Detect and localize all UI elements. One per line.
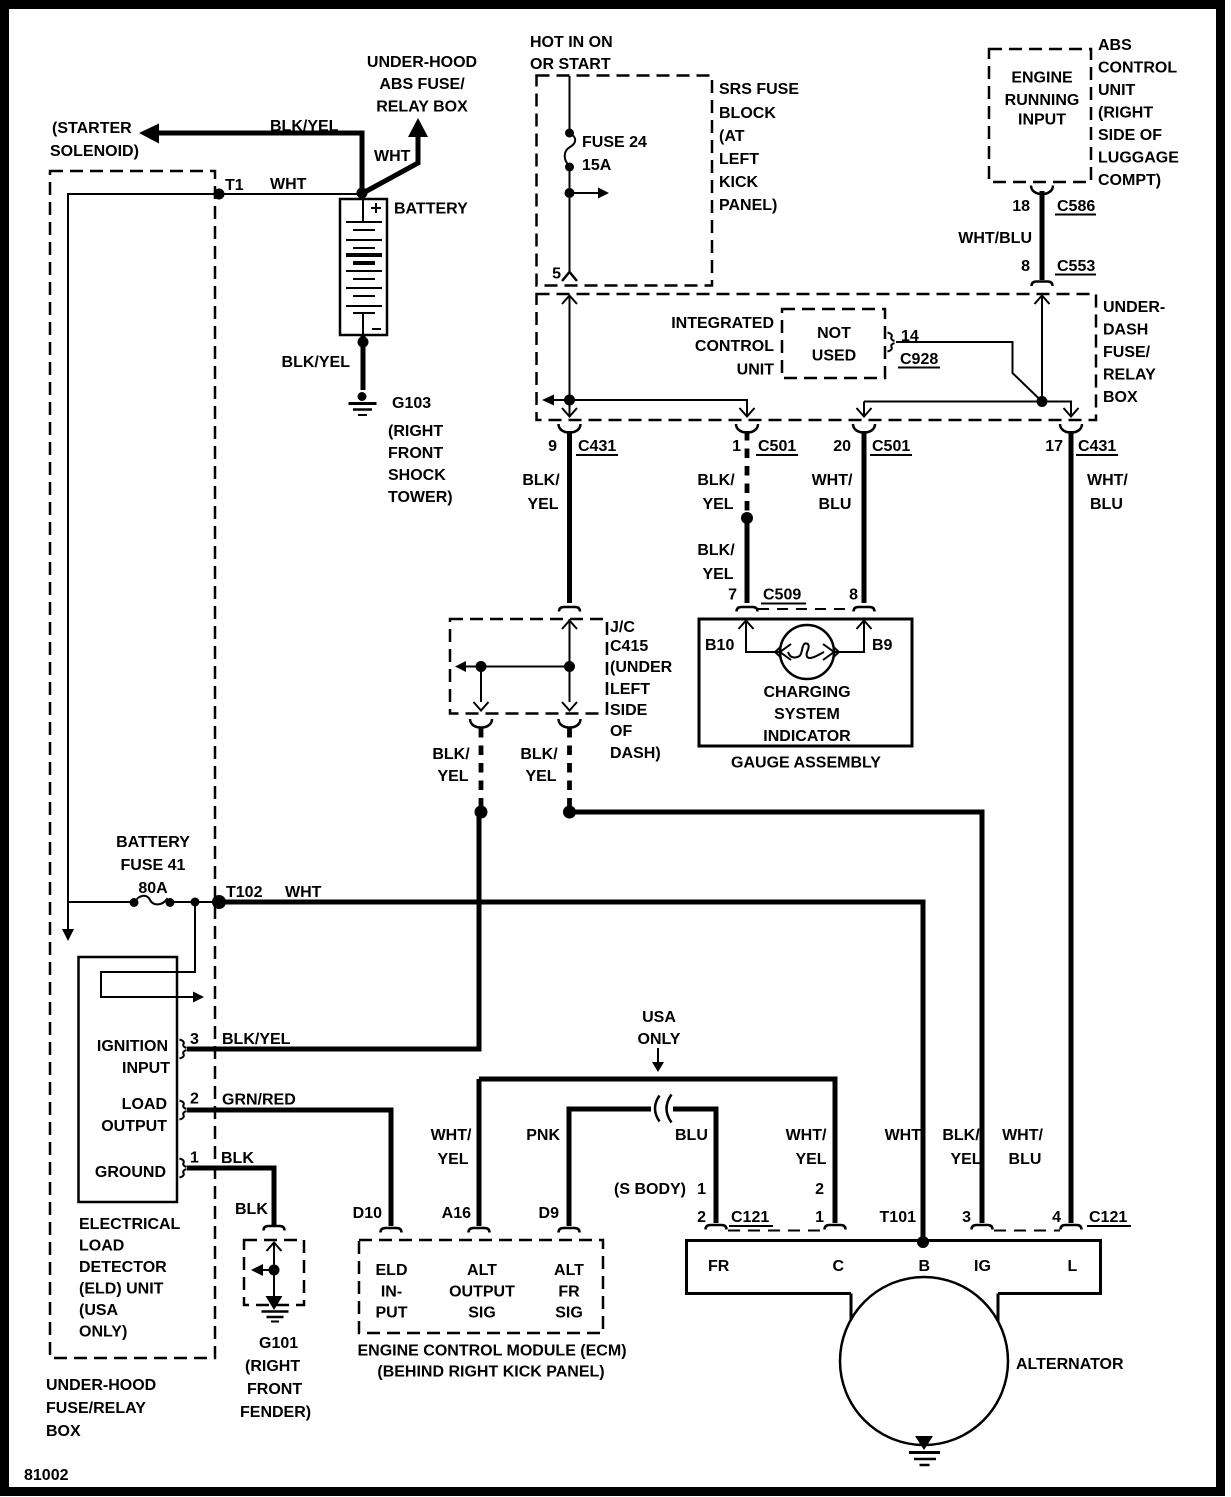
svg-text:D9: D9 [539,1205,560,1222]
svg-text:2: 2 [815,1181,824,1198]
svg-text:RUNNING: RUNNING [1005,92,1080,109]
svg-text:BLOCK: BLOCK [719,105,776,122]
svg-text:(ELD) UNIT: (ELD) UNIT [79,1281,164,1298]
svg-text:FUSE/RELAY: FUSE/RELAY [46,1400,146,1417]
svg-text:IG: IG [974,1258,991,1275]
svg-text:1: 1 [190,1150,199,1167]
svg-text:SOLENOID): SOLENOID) [50,143,139,160]
svg-text:L: L [1068,1258,1078,1275]
svg-text:BATTERY: BATTERY [394,201,468,218]
svg-text:BLU: BLU [675,1127,708,1144]
svg-text:ALT: ALT [554,1262,584,1279]
svg-text:(UNDER: (UNDER [610,659,673,676]
svg-text:FENDER): FENDER) [240,1404,311,1421]
svg-text:C431: C431 [578,438,616,455]
svg-text:3: 3 [190,1031,199,1048]
svg-text:HOT IN ON: HOT IN ON [530,34,613,51]
svg-text:B9: B9 [872,637,893,654]
svg-text:PUT: PUT [376,1305,408,1322]
svg-text:LEFT: LEFT [610,681,650,698]
svg-text:PANEL): PANEL) [719,197,777,214]
svg-text:TOWER): TOWER) [388,489,453,506]
svg-text:LUGGAGE: LUGGAGE [1098,150,1179,167]
svg-text:G103: G103 [392,395,431,412]
svg-text:1: 1 [697,1181,706,1198]
svg-text:BLU: BLU [1090,496,1123,513]
svg-text:DASH): DASH) [610,745,661,762]
svg-text:NOT: NOT [817,325,851,342]
svg-text:20: 20 [833,438,851,455]
svg-text:INTEGRATED: INTEGRATED [671,315,774,332]
svg-text:3: 3 [962,1209,971,1226]
svg-text:FRONT: FRONT [388,445,443,462]
svg-text:8: 8 [849,587,858,604]
svg-text:SHOCK: SHOCK [388,467,446,484]
svg-text:ONLY: ONLY [638,1031,681,1048]
svg-text:YEL: YEL [527,496,558,513]
svg-text:C: C [833,1258,845,1275]
svg-text:5: 5 [552,266,561,283]
svg-text:CONTROL: CONTROL [695,338,774,355]
svg-text:WHT: WHT [270,176,307,193]
svg-text:BLK/: BLK/ [697,472,735,489]
svg-text:FUSE 41: FUSE 41 [121,857,186,874]
svg-text:BLK: BLK [235,1201,268,1218]
svg-text:C501: C501 [872,438,910,455]
svg-text:WHT/BLU: WHT/BLU [958,230,1032,247]
svg-text:C501: C501 [758,438,796,455]
svg-text:INDICATOR: INDICATOR [763,728,851,745]
svg-text:UNDER-HOOD: UNDER-HOOD [367,54,477,71]
svg-text:LEFT: LEFT [719,151,759,168]
svg-text:BLU: BLU [819,496,852,513]
svg-text:FRONT: FRONT [247,1381,302,1398]
svg-text:2: 2 [190,1091,199,1108]
svg-text:ELD: ELD [376,1262,408,1279]
svg-text:(RIGHT: (RIGHT [388,423,443,440]
svg-text:1: 1 [732,438,741,455]
svg-text:C415: C415 [610,638,648,655]
svg-text:CHARGING: CHARGING [763,684,850,701]
svg-text:FUSE 24: FUSE 24 [582,134,647,151]
svg-text:WHT/: WHT/ [786,1127,827,1144]
svg-text:OF: OF [610,723,632,740]
svg-text:C431: C431 [1078,438,1116,455]
svg-text:G101: G101 [259,1335,298,1352]
svg-text:ELECTRICAL: ELECTRICAL [79,1216,181,1233]
svg-text:T1: T1 [225,177,244,194]
svg-text:KICK: KICK [719,174,759,191]
svg-text:RELAY: RELAY [1103,367,1156,384]
svg-text:81002: 81002 [24,1467,69,1484]
svg-text:WHT/: WHT/ [1002,1127,1043,1144]
svg-text:T101: T101 [880,1209,917,1226]
svg-text:(RIGHT: (RIGHT [245,1358,300,1375]
svg-text:OUTPUT: OUTPUT [101,1118,167,1135]
svg-text:C509: C509 [763,587,801,604]
svg-text:YEL: YEL [702,566,733,583]
svg-text:DASH: DASH [1103,322,1148,339]
svg-text:BLU: BLU [1009,1151,1042,1168]
svg-text:FR: FR [558,1284,580,1301]
svg-text:ONLY): ONLY) [79,1324,127,1341]
svg-text:WHT: WHT [285,884,322,901]
svg-text:FUSE/: FUSE/ [1103,344,1151,361]
svg-text:ABS FUSE/: ABS FUSE/ [379,76,465,93]
svg-text:RELAY BOX: RELAY BOX [376,99,468,116]
svg-text:BLK/: BLK/ [432,746,470,763]
svg-text:SIDE: SIDE [610,702,648,719]
svg-text:GROUND: GROUND [95,1164,166,1181]
svg-text:80A: 80A [138,880,168,897]
svg-text:17: 17 [1045,438,1063,455]
svg-text:(STARTER: (STARTER [52,120,132,137]
svg-text:USA: USA [642,1009,676,1026]
svg-text:YEL: YEL [950,1151,981,1168]
svg-text:BLK/YEL: BLK/YEL [270,118,339,135]
svg-text:4: 4 [1052,1209,1061,1226]
svg-text:18: 18 [1012,198,1030,215]
svg-text:ENGINE CONTROL MODULE (ECM): ENGINE CONTROL MODULE (ECM) [357,1343,626,1360]
svg-text:BATTERY: BATTERY [116,834,190,851]
svg-text:LOAD: LOAD [122,1096,167,1113]
svg-text:C586: C586 [1057,198,1095,215]
svg-text:(AT: (AT [719,128,745,145]
svg-text:C121: C121 [1089,1209,1127,1226]
svg-text:(USA: (USA [79,1302,119,1319]
svg-text:BLK/YEL: BLK/YEL [222,1031,291,1048]
svg-text:WHT: WHT [885,1127,922,1144]
svg-text:USED: USED [812,348,856,365]
svg-text:SIG: SIG [468,1305,496,1322]
svg-text:(S BODY): (S BODY) [614,1181,686,1198]
svg-text:C553: C553 [1057,258,1095,275]
svg-text:ALTERNATOR: ALTERNATOR [1016,1356,1124,1373]
svg-text:C928: C928 [900,351,938,368]
svg-text:SRS FUSE: SRS FUSE [719,81,799,98]
svg-text:SIDE OF: SIDE OF [1098,127,1162,144]
svg-text:SIG: SIG [555,1305,583,1322]
svg-text:2: 2 [697,1209,706,1226]
svg-text:WHT/: WHT/ [1087,472,1128,489]
svg-text:7: 7 [728,587,737,604]
svg-text:WHT/: WHT/ [812,472,853,489]
svg-text:BOX: BOX [1103,389,1138,406]
svg-text:INPUT: INPUT [122,1060,170,1077]
svg-text:YEL: YEL [437,1151,468,1168]
svg-text:INPUT: INPUT [1018,112,1066,129]
svg-text:COMPT): COMPT) [1098,172,1161,189]
svg-text:YEL: YEL [437,768,468,785]
svg-text:OUTPUT: OUTPUT [449,1284,515,1301]
svg-text:B10: B10 [705,637,734,654]
svg-text:UNIT: UNIT [737,362,775,379]
svg-text:GAUGE ASSEMBLY: GAUGE ASSEMBLY [731,755,881,772]
svg-text:UNDER-HOOD: UNDER-HOOD [46,1377,156,1394]
svg-text:D10: D10 [353,1205,382,1222]
svg-text:BLK: BLK [221,1150,254,1167]
svg-text:BLK/: BLK/ [520,746,558,763]
svg-text:YEL: YEL [525,768,556,785]
svg-text:A16: A16 [442,1205,471,1222]
svg-text:8: 8 [1021,258,1030,275]
svg-text:BLK/: BLK/ [697,542,735,559]
svg-text:IN-: IN- [381,1284,402,1301]
svg-text:BOX: BOX [46,1423,81,1440]
svg-text:PNK: PNK [526,1127,560,1144]
svg-text:SYSTEM: SYSTEM [774,706,840,723]
svg-text:FR: FR [708,1258,730,1275]
svg-text:OR START: OR START [530,56,611,73]
svg-text:ALT: ALT [467,1262,497,1279]
svg-text:BLK/: BLK/ [522,472,560,489]
svg-text:WHT/: WHT/ [431,1127,472,1144]
svg-text:UNIT: UNIT [1098,82,1136,99]
svg-text:C121: C121 [731,1209,769,1226]
svg-text:ABS: ABS [1098,37,1132,54]
svg-text:YEL: YEL [702,496,733,513]
svg-text:(RIGHT: (RIGHT [1098,105,1153,122]
svg-text:ENGINE: ENGINE [1011,70,1073,87]
svg-text:UNDER-: UNDER- [1103,299,1165,316]
svg-text:9: 9 [548,438,557,455]
svg-text:15A: 15A [582,157,612,174]
svg-text:J/C: J/C [610,619,635,636]
svg-text:14: 14 [901,328,919,345]
svg-text:WHT: WHT [374,148,411,165]
svg-text:IGNITION: IGNITION [97,1038,168,1055]
svg-text:B: B [919,1258,931,1275]
svg-text:YEL: YEL [795,1151,826,1168]
svg-text:T102: T102 [226,884,263,901]
svg-text:CONTROL: CONTROL [1098,60,1177,77]
svg-text:LOAD: LOAD [79,1238,124,1255]
svg-text:1: 1 [815,1209,824,1226]
svg-text:BLK/: BLK/ [942,1127,980,1144]
svg-text:(BEHIND RIGHT KICK PANEL): (BEHIND RIGHT KICK PANEL) [377,1364,604,1381]
svg-text:DETECTOR: DETECTOR [79,1259,167,1276]
svg-text:GRN/RED: GRN/RED [222,1092,296,1109]
svg-text:BLK/YEL: BLK/YEL [282,354,351,371]
